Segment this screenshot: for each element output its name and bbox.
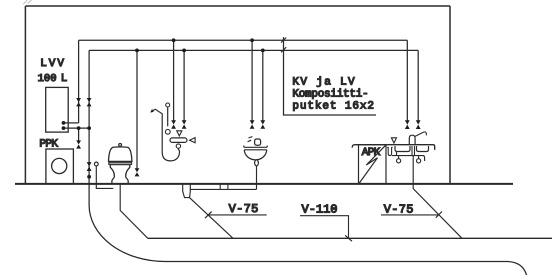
washbasin bowl <box>244 150 267 160</box>
shut-off valves (bowties) <box>76 98 420 176</box>
shower rail <box>167 107 169 126</box>
trap circle right <box>418 156 420 159</box>
LV distribution pipe (upper) <box>79 39 408 41</box>
kitchen faucet <box>409 135 415 145</box>
PPK tap valve <box>76 140 81 148</box>
pipe sleeve marks <box>220 185 228 190</box>
main sewer line <box>148 237 552 239</box>
shower hot valve <box>171 120 176 129</box>
KV distribution pipe (lower) <box>89 49 418 51</box>
shower mixer body <box>170 138 187 143</box>
sink drain manifold <box>392 152 425 162</box>
svg-text:LVV: LVV <box>40 58 66 70</box>
junction dots <box>62 38 265 178</box>
label box leader line with arrow ticks <box>284 37 377 115</box>
top wall <box>25 5 450 7</box>
kitchen hot drop pipe <box>406 40 408 121</box>
kitchen hot valve <box>405 120 410 129</box>
PPK drain pipe below floor <box>96 166 113 189</box>
svg-text:APK: APK <box>362 147 381 159</box>
valve riser B <box>87 98 92 106</box>
kitchen faucet spout <box>415 132 427 137</box>
APK drain hose hook <box>387 147 392 155</box>
washbasin drain pipe <box>256 166 258 190</box>
cold water riser B / service pipe sweep <box>89 50 526 275</box>
washbasin rim <box>244 146 267 148</box>
APK dishwasher box <box>359 145 387 184</box>
main shut-off valve <box>87 162 92 171</box>
floor line <box>15 183 513 185</box>
WC feed drop pipe <box>136 50 138 169</box>
svg-text:100: 100 <box>38 73 57 85</box>
WC pedestal <box>110 165 130 184</box>
shower hot drop pipe <box>173 40 175 121</box>
shower mixer outlet triangle <box>177 131 182 136</box>
APK reservation lightning <box>359 145 386 183</box>
arrow tick V-110 <box>345 235 352 241</box>
hot water riser A from tank <box>78 40 80 123</box>
floor drain outlet pipe <box>189 197 233 238</box>
shower rail top circle <box>166 103 170 107</box>
shower hose holder circle <box>176 144 180 148</box>
arrow tick V-75 right <box>436 212 442 218</box>
PPK washing machine box <box>46 149 74 184</box>
basin cold valve <box>260 120 265 129</box>
svg-text:V-110: V-110 <box>302 202 338 216</box>
svg-text:putket 16x2: putket 16x2 <box>292 101 375 113</box>
kitchen sink left bowl <box>395 146 410 152</box>
washbasin trap <box>255 160 259 166</box>
under-floor drain line to basin <box>190 188 256 190</box>
WC seat band <box>109 162 132 165</box>
shower rail lower circle <box>165 129 170 134</box>
LVV tank 100 L <box>46 87 68 132</box>
tank hot outlet stub <box>64 122 79 124</box>
PPK drum circle <box>52 158 67 173</box>
kitchen cold tap triangle <box>391 138 396 143</box>
right wall <box>449 6 451 184</box>
shower cold drop pipe <box>183 50 185 121</box>
kitchen counter top <box>352 145 435 150</box>
valve riser A <box>76 98 81 106</box>
svg-text:Komposiitti-: Komposiitti- <box>292 88 368 100</box>
washbasin faucet <box>255 139 261 145</box>
arrow tick V-75 left <box>205 212 212 219</box>
svg-text:KV ja LV: KV ja LV <box>292 76 356 88</box>
leader underline V-75 right <box>381 214 439 216</box>
shower mixer side triangle <box>190 138 196 143</box>
kitchen sink right bowl <box>417 146 429 152</box>
kitchen cold valve <box>416 120 421 129</box>
leader underline V-75 left <box>208 214 267 216</box>
washbasin cold drop pipe <box>262 50 264 121</box>
sink divider pillars <box>412 146 415 156</box>
svg-text:L: L <box>61 73 68 85</box>
WC cistern <box>109 147 132 162</box>
washbasin hot drop pipe <box>251 40 253 121</box>
svg-text:PPK: PPK <box>39 138 58 150</box>
basin hot valve <box>250 120 255 129</box>
WC lid knob <box>119 144 122 147</box>
WC tap valve <box>135 168 140 176</box>
PPK drain connection circle <box>94 162 98 166</box>
PPK tap stub <box>78 128 80 141</box>
kitchen drain pipe to sewer <box>413 156 462 239</box>
tank cold inlet line <box>64 127 90 129</box>
kitchen cold drop pipe <box>417 50 419 121</box>
shower head arrow <box>150 109 154 113</box>
WC drain pipe to sewer <box>120 184 148 238</box>
svg-text:V-75: V-75 <box>229 202 259 216</box>
shower cold valve <box>182 120 187 129</box>
left wall <box>24 6 26 184</box>
trap circle left <box>398 156 400 159</box>
shower hose <box>153 109 180 161</box>
washbasin spray ticks <box>248 137 253 142</box>
wall corner hatch ticks top-left <box>23 0 31 4</box>
leader line V-110 <box>300 216 349 239</box>
floor drain <box>183 184 191 198</box>
